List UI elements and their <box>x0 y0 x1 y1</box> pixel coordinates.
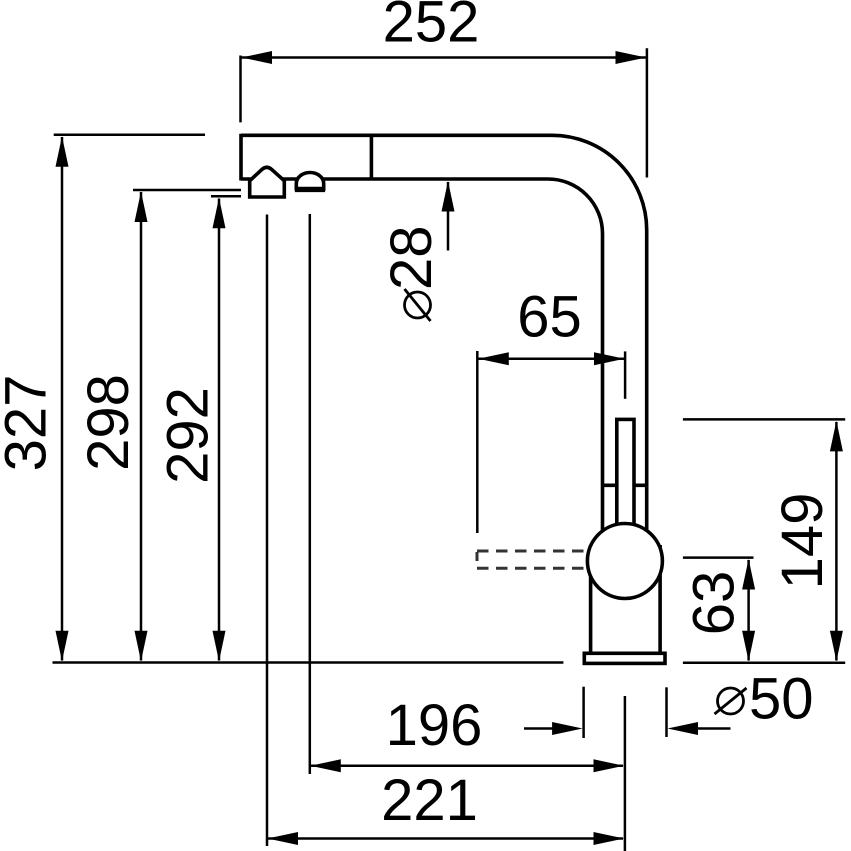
svg-text:298: 298 <box>76 374 141 471</box>
svg-text:327: 327 <box>0 375 59 472</box>
svg-text:292: 292 <box>156 387 221 484</box>
svg-text:65: 65 <box>517 285 582 350</box>
svg-text:196: 196 <box>386 693 483 758</box>
svg-text:149: 149 <box>770 493 835 590</box>
svg-text:252: 252 <box>383 0 480 55</box>
svg-text:221: 221 <box>381 768 478 833</box>
svg-text:63: 63 <box>682 571 747 636</box>
svg-text:50: 50 <box>749 666 814 731</box>
svg-text:28: 28 <box>379 225 444 290</box>
